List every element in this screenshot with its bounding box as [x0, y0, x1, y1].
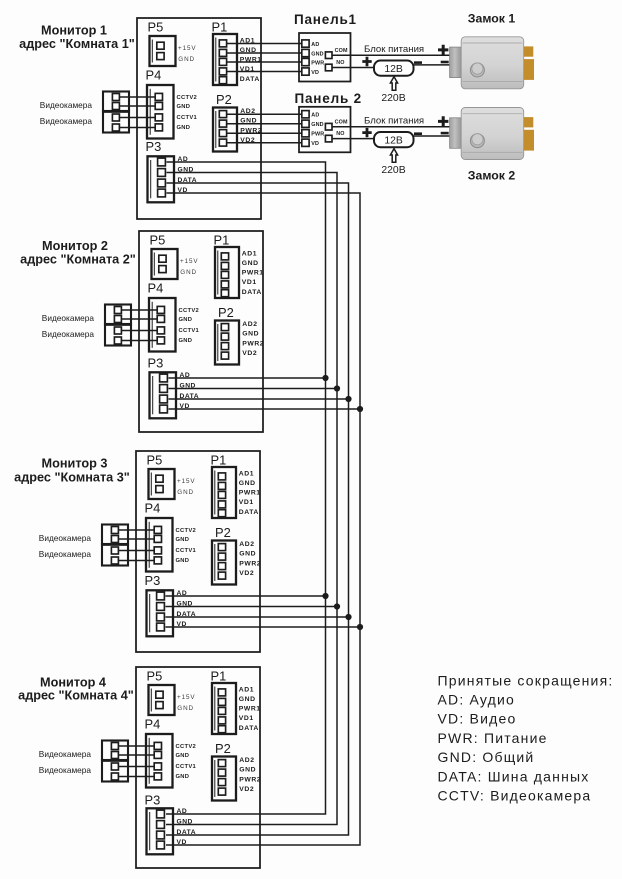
svg-text:GND: GND — [177, 125, 191, 131]
wire NO panel 2 to 12V supply — [332, 138, 374, 140]
svg-text:GND: GND — [242, 331, 259, 338]
svg-text:Принятые сокращения:: Принятые сокращения: — [438, 672, 614, 688]
svg-text:Панель 2: Панель 2 — [295, 91, 362, 106]
wire camera to P4 pin 1 — [118, 745, 154, 747]
svg-text:CCTV1: CCTV1 — [179, 328, 200, 334]
junction dot VD bus / monitor 3 — [357, 624, 363, 630]
wire 12V supply to lock 1 - — [414, 64, 451, 66]
svg-text:COM: COM — [335, 119, 348, 125]
svg-text:Монитор 3: Монитор 3 — [42, 457, 108, 471]
svg-text:P3: P3 — [148, 356, 164, 371]
svg-text:Замок 2: Замок 2 — [468, 169, 516, 183]
svg-text:P5: P5 — [148, 20, 164, 35]
svg-text:GND: GND — [176, 558, 190, 564]
panel 2 NO pin — [325, 135, 332, 142]
svg-text:PWR2: PWR2 — [239, 776, 261, 783]
wire monitor 3 P3 GND to bus — [166, 606, 338, 608]
svg-text:PWR1: PWR1 — [239, 490, 261, 497]
wire monitor 3 P3 AD to bus — [166, 595, 326, 597]
P1 pins — [219, 40, 226, 47]
monitor 4 block — [39, 667, 261, 868]
svg-text:VD2: VD2 — [239, 786, 254, 793]
svg-text:+15V: +15V — [180, 258, 198, 265]
video camera connector 2 — [103, 111, 129, 133]
svg-text:Монитор 2: Монитор 2 — [42, 239, 108, 253]
video camera connector 2 — [102, 544, 128, 566]
connector P5 body — [152, 249, 178, 279]
svg-text:AD1: AD1 — [239, 471, 254, 478]
svg-text:P4: P4 — [145, 717, 161, 732]
svg-text:CCTV1: CCTV1 — [176, 764, 197, 770]
svg-text:DATA: Шина данных: DATA: Шина данных — [438, 768, 590, 784]
wire camera to P4 pin 3 — [121, 330, 157, 332]
P2 pins — [218, 544, 225, 551]
wire monitor 2 P3 GND to bus — [169, 388, 338, 390]
connector P3 body — [150, 372, 177, 418]
svg-text:GND: GND — [178, 56, 195, 63]
svg-text:220В: 220В — [381, 93, 405, 104]
svg-text:DATA: DATA — [240, 76, 260, 83]
svg-text:P5: P5 — [147, 453, 163, 468]
svg-text:адрес "Комната 3": адрес "Комната 3" — [14, 471, 130, 485]
svg-text:+15V: +15V — [177, 478, 195, 485]
connector P1 body — [215, 247, 239, 298]
svg-text:GND: GND — [239, 551, 256, 558]
svg-text:адрес "Комната 2": адрес "Комната 2" — [20, 253, 136, 267]
svg-text:CCTV: Видеокамера: CCTV: Видеокамера — [438, 788, 592, 804]
svg-text:VD1: VD1 — [239, 499, 254, 506]
svg-text:P1: P1 — [214, 233, 230, 248]
svg-text:PWR2: PWR2 — [239, 560, 261, 567]
wire monitor 2 P3 AD to bus — [169, 377, 326, 379]
svg-text:GND: GND — [179, 317, 193, 323]
wire camera to P4 pin 2 — [118, 538, 154, 540]
svg-text:адрес "Комната 1": адрес "Комната 1" — [19, 37, 135, 51]
connector P2 body — [213, 108, 237, 152]
P4 pins — [155, 93, 162, 100]
wire camera to P4 pin 3 — [118, 766, 154, 768]
junction dot VD bus / monitor 2 — [357, 406, 363, 412]
wire P1 pin 1 to panel 1 — [227, 43, 302, 45]
plus sign at lock 2 — [438, 116, 448, 126]
svg-text:GND: GND — [311, 51, 323, 57]
wire camera to P4 pin 1 — [121, 309, 157, 311]
junction dot DATA bus / monitor 3 — [345, 614, 351, 620]
junction dot AD bus / monitor 3 — [322, 593, 328, 599]
svg-text:P1: P1 — [211, 453, 227, 468]
svg-text:AD: AD — [311, 113, 319, 119]
svg-text:Видеокамера: Видеокамера — [40, 116, 93, 126]
minus sign after 12V box 1 — [414, 61, 422, 64]
minus sign after 12V box 2 — [414, 132, 422, 135]
svg-text:Замок 1: Замок 1 — [468, 11, 516, 25]
svg-text:PWR: Питание: PWR: Питание — [438, 730, 548, 746]
svg-text:GND: GND — [176, 537, 190, 543]
plus sign at lock 1 — [438, 45, 448, 55]
minus sign at lock 2 — [441, 132, 449, 135]
svg-text:P3: P3 — [146, 139, 162, 154]
svg-text:PWR1: PWR1 — [239, 706, 261, 713]
plus sign before 12V box 1 — [362, 57, 371, 66]
outlined up arrow 220V 1 — [390, 77, 397, 91]
svg-text:CCTV2: CCTV2 — [176, 528, 197, 534]
bus wire VD: monitor 1 P3 down to monitor 4 P3 — [166, 193, 360, 845]
wire COM panel 1 to lock 1 + — [332, 54, 450, 56]
P4 pins — [154, 742, 161, 749]
outlined up arrow 220V 2 — [390, 149, 397, 163]
video camera connector 1 — [105, 305, 131, 325]
svg-text:Видеокамера: Видеокамера — [42, 329, 95, 339]
junction dot GND bus / monitor 3 — [334, 603, 340, 609]
svg-text:NO: NO — [336, 131, 344, 137]
connector P1 body — [213, 34, 237, 85]
svg-text:GND: GND — [179, 338, 193, 344]
wire COM panel 2 to lock 2 + — [332, 126, 450, 128]
video camera connector 1 — [102, 741, 128, 761]
connector P4 body — [147, 85, 174, 139]
wire camera to P4 pin 4 — [121, 340, 157, 342]
panel 1 input pins — [302, 40, 309, 47]
svg-text:GND: Общий: GND: Общий — [438, 749, 535, 765]
connector P3 body — [148, 156, 175, 202]
P2 pins — [218, 760, 225, 767]
svg-text:GND: GND — [242, 260, 259, 267]
svg-text:Блок питания: Блок питания — [364, 44, 424, 55]
svg-text:P2: P2 — [215, 525, 231, 540]
electric lock 2 (Замок 2) drawing — [450, 118, 462, 149]
monitor 2 block — [42, 231, 264, 432]
svg-text:Видеокамера: Видеокамера — [42, 313, 95, 323]
monitor 1 block — [40, 18, 262, 219]
wire P2 pin 2 to panel 2 — [227, 123, 302, 125]
wire P1 pin 3 to panel 1 — [227, 61, 302, 63]
connector P4 body — [146, 518, 173, 572]
video camera connector 2 — [102, 760, 128, 782]
svg-text:VD2: VD2 — [239, 570, 254, 577]
P4 pins — [154, 526, 161, 533]
P5 pins — [159, 255, 166, 262]
wire camera to P4 pin 1 — [119, 96, 155, 98]
svg-text:P4: P4 — [148, 281, 164, 296]
svg-text:Панель1: Панель1 — [294, 12, 357, 27]
svg-text:CCTV2: CCTV2 — [179, 308, 200, 314]
plus sign before 12V box 2 — [362, 128, 371, 137]
wire camera to P4 pin 4 — [118, 776, 154, 778]
svg-text:PWR: PWR — [311, 60, 324, 66]
svg-text:P2: P2 — [216, 92, 232, 107]
wire monitor 2 P3 DATA to bus — [169, 398, 349, 400]
svg-text:VD: VD — [311, 141, 319, 147]
P2 pins — [221, 324, 228, 331]
video camera connector 2 — [105, 324, 131, 346]
wire camera to P4 pin 4 — [118, 560, 154, 562]
svg-text:CCTV2: CCTV2 — [176, 744, 197, 750]
P5 pins — [156, 691, 163, 698]
P5 pins — [157, 42, 164, 49]
svg-text:GND: GND — [311, 122, 323, 128]
svg-text:Видеокамера: Видеокамера — [39, 765, 92, 775]
wire P1 pin 2 to panel 1 — [227, 52, 302, 54]
svg-text:AD2: AD2 — [239, 757, 254, 764]
svg-text:Видеокамера: Видеокамера — [39, 549, 92, 559]
wire camera to P4 pin 4 — [119, 127, 155, 129]
svg-text:AD2: AD2 — [242, 321, 257, 328]
svg-text:DATA: DATA — [239, 509, 259, 516]
monitor 3 outline box — [136, 451, 260, 652]
wire camera to P4 pin 2 — [118, 754, 154, 756]
connector P2 body — [215, 321, 239, 365]
svg-text:12В: 12В — [384, 135, 403, 146]
minus sign at lock 1 — [441, 61, 449, 64]
svg-text:+15V: +15V — [177, 694, 195, 701]
svg-text:GND: GND — [176, 753, 190, 759]
12V supply box 1 — [374, 61, 414, 76]
svg-text:GND: GND — [176, 774, 190, 780]
svg-text:PWR1: PWR1 — [242, 270, 264, 277]
12V supply box 2 — [374, 132, 414, 147]
video camera connector 1 — [103, 92, 129, 112]
svg-text:COM: COM — [335, 48, 348, 54]
svg-text:CCTV1: CCTV1 — [176, 548, 197, 554]
P3 pins — [160, 374, 168, 382]
svg-text:VD1: VD1 — [239, 715, 254, 722]
wire monitor 3 P3 VD to bus — [166, 626, 361, 628]
svg-text:DATA: DATA — [239, 725, 259, 732]
svg-text:GND: GND — [177, 489, 194, 496]
P2 pins — [219, 111, 226, 118]
svg-text:VD: VD — [311, 70, 319, 76]
svg-text:CCTV2: CCTV2 — [177, 95, 198, 101]
svg-text:GND: GND — [177, 705, 194, 712]
P5 pins — [156, 475, 163, 482]
svg-text:+15V: +15V — [178, 45, 196, 52]
svg-text:адрес "Комната 4": адрес "Комната 4" — [18, 689, 134, 703]
svg-text:P3: P3 — [145, 793, 161, 808]
svg-text:GND: GND — [177, 104, 191, 110]
svg-text:P3: P3 — [145, 573, 161, 588]
wire P2 pin 3 to panel 2 — [227, 132, 302, 134]
svg-text:GND: GND — [239, 767, 256, 774]
svg-text:AD2: AD2 — [239, 541, 254, 548]
connector P4 body — [149, 298, 176, 352]
monitor 2 outline box — [139, 231, 263, 432]
connector P2 body — [212, 757, 236, 801]
wire monitor 2 P3 VD to bus — [169, 408, 361, 410]
svg-text:PWR2: PWR2 — [242, 340, 264, 347]
svg-text:GND: GND — [239, 480, 256, 487]
wire camera to P4 pin 3 — [118, 550, 154, 552]
connector P3 body — [147, 590, 174, 636]
svg-text:Монитор 4: Монитор 4 — [40, 676, 106, 690]
svg-text:Видеокамера: Видеокамера — [39, 749, 92, 759]
P1 pins — [218, 689, 225, 696]
wire camera to P4 pin 1 — [118, 529, 154, 531]
svg-text:DATA: DATA — [242, 289, 262, 296]
svg-text:Блок питания: Блок питания — [364, 116, 424, 127]
svg-text:NO: NO — [336, 60, 344, 66]
svg-text:P4: P4 — [145, 501, 161, 516]
wire P2 pin 1 to panel 2 — [227, 113, 302, 115]
svg-text:P2: P2 — [215, 741, 231, 756]
svg-text:P4: P4 — [146, 68, 162, 83]
monitor 1 outline box — [137, 18, 261, 219]
connector P4 body — [146, 734, 173, 788]
svg-text:AD1: AD1 — [242, 251, 257, 258]
panel 2 box — [299, 107, 351, 153]
svg-text:AD: Аудио: AD: Аудио — [438, 692, 516, 708]
junction dot AD bus / monitor 2 — [322, 375, 328, 381]
panel 2 COM pin — [325, 123, 332, 130]
wire 12V supply to lock 2 - — [414, 135, 451, 137]
svg-text:Видеокамера: Видеокамера — [40, 100, 93, 110]
svg-text:P5: P5 — [150, 233, 166, 248]
svg-text:12В: 12В — [384, 64, 403, 75]
wire P1 pin 4 to panel 1 — [227, 71, 302, 73]
svg-text:Монитор 1: Монитор 1 — [41, 24, 107, 38]
electric lock 1 (Замок 1) drawing — [450, 47, 462, 78]
wire NO panel 1 to 12V supply — [332, 67, 374, 69]
monitor 4 outline box — [136, 667, 260, 868]
P1 pins — [221, 253, 228, 260]
junction dot GND bus / monitor 2 — [334, 385, 340, 391]
svg-text:AD: AD — [311, 42, 319, 48]
panel 1 NO pin — [325, 64, 332, 71]
junction dot DATA bus / monitor 2 — [345, 396, 351, 402]
svg-text:Видеокамера: Видеокамера — [39, 533, 92, 543]
svg-text:VD2: VD2 — [242, 350, 257, 357]
connector P3 body — [147, 808, 174, 854]
wire camera to P4 pin 2 — [119, 105, 155, 107]
P4 pins — [157, 306, 164, 313]
svg-text:PWR: PWR — [311, 132, 324, 138]
wire camera to P4 pin 2 — [121, 318, 157, 320]
svg-text:P2: P2 — [218, 305, 234, 320]
video camera connector 1 — [102, 525, 128, 545]
monitor 3 block — [39, 451, 261, 652]
svg-text:220В: 220В — [381, 165, 405, 176]
P1 pins — [218, 473, 225, 480]
bus wire DATA: monitor 1 P3 down to monitor 4 P3 — [166, 183, 349, 835]
connector P2 body — [212, 541, 236, 585]
svg-text:P5: P5 — [147, 669, 163, 684]
bus wire GND: monitor 1 P3 down to monitor 4 P3 — [166, 173, 337, 825]
svg-text:GND: GND — [239, 696, 256, 703]
connector P5 body — [150, 36, 176, 66]
svg-text:VD1: VD1 — [242, 279, 257, 286]
panel 1 box — [299, 33, 351, 82]
svg-text:P1: P1 — [212, 20, 228, 35]
P3 pins — [157, 592, 165, 600]
svg-text:CCTV1: CCTV1 — [177, 115, 198, 121]
P3 pins — [158, 158, 166, 166]
connector P1 body — [212, 467, 236, 518]
svg-text:P1: P1 — [211, 669, 227, 684]
P3 pins — [157, 810, 165, 818]
svg-text:GND: GND — [180, 269, 197, 276]
connector P5 body — [149, 685, 175, 715]
connector P1 body — [212, 683, 236, 734]
wire P2 pin 4 to panel 2 — [227, 142, 302, 144]
connector P5 body — [149, 469, 175, 499]
wire monitor 3 P3 DATA to bus — [166, 616, 349, 618]
svg-text:AD1: AD1 — [239, 687, 254, 694]
svg-text:VD: Видео: VD: Видео — [438, 711, 517, 727]
panel 1 COM pin — [325, 52, 332, 59]
wire camera to P4 pin 3 — [119, 117, 155, 119]
panel 2 input pins — [302, 111, 309, 118]
bus wire AD: monitor 1 P3 down to monitor 4 P3 — [166, 162, 326, 814]
